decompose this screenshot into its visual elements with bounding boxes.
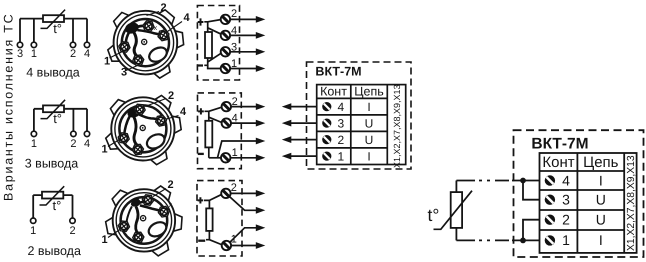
plus mark	[198, 18, 204, 25]
svg-text:2: 2	[562, 212, 570, 228]
svg-text:t°: t°	[53, 111, 62, 126]
output wire 1	[231, 157, 257, 159]
shell tabs	[110, 188, 128, 207]
svg-text:3: 3	[17, 48, 23, 60]
pin label 2 leader	[147, 12, 160, 16]
terminal 1	[31, 218, 36, 223]
svg-text:2 вывода: 2 вывода	[27, 244, 81, 258]
svg-text:4: 4	[84, 138, 90, 150]
wire + node to resistor	[204, 22, 207, 32]
dashed enclosure T1	[307, 62, 412, 169]
arrow 3	[256, 48, 265, 55]
dashed enclosure C	[197, 181, 242, 256]
svg-text:U: U	[365, 116, 374, 130]
header line	[317, 97, 388, 99]
screw contact 2	[322, 135, 331, 144]
svg-text:3: 3	[337, 116, 344, 130]
arrow 2	[256, 103, 265, 110]
svg-text:Конт: Конт	[542, 154, 574, 171]
wire tap row3	[218, 141, 257, 158]
wire blob to pinR	[140, 205, 162, 211]
screw contact 1	[545, 235, 555, 245]
table frame	[540, 153, 637, 253]
keyway oval	[146, 219, 168, 239]
pin B	[132, 232, 144, 243]
keyway oval	[145, 131, 167, 151]
junction dot top	[520, 178, 526, 184]
wire bottom lead	[455, 228, 457, 241]
wire to screw 4	[208, 28, 222, 34]
input wire 1	[291, 155, 317, 157]
svg-text:1: 1	[337, 149, 344, 163]
screw terminal 1	[221, 64, 230, 73]
wire blob to pin4	[137, 30, 162, 35]
pin label 2 leader	[153, 189, 166, 197]
column line 2	[623, 153, 625, 253]
svg-text:1: 1	[30, 225, 36, 237]
wire lead 1	[33, 19, 35, 42]
screw terminal 3	[221, 47, 230, 56]
svg-text:2: 2	[70, 48, 76, 60]
resistor RK2 body	[43, 105, 64, 112]
screw contact 3	[322, 119, 331, 128]
arrow to 1	[282, 153, 292, 160]
svg-text:1: 1	[562, 232, 570, 248]
svg-text:I: I	[367, 149, 370, 163]
wire to screw 4	[209, 117, 222, 122]
arrow to 2	[282, 136, 292, 143]
wire to screw 2	[208, 20, 221, 22]
input wire 2	[291, 139, 317, 141]
input wire 4	[291, 106, 317, 108]
column line 2	[386, 85, 388, 165]
terminal 1	[31, 131, 36, 136]
pin 1	[118, 41, 130, 52]
wiring blob	[131, 198, 141, 207]
wire	[33, 194, 72, 196]
resistor RK1 body	[43, 15, 64, 22]
column line 1	[350, 85, 352, 165]
center pin	[140, 125, 145, 130]
pin 1	[117, 132, 130, 144]
svg-text:1: 1	[232, 147, 238, 159]
svg-text:3: 3	[121, 67, 127, 79]
resistor RB body	[205, 121, 212, 148]
wire blob to pin1	[126, 206, 132, 222]
screw contact 1	[322, 152, 331, 161]
arrow to 4	[282, 103, 292, 110]
wire bottom branch to row2	[523, 220, 540, 241]
wire top branch to row3	[523, 181, 540, 200]
svg-text:1: 1	[31, 48, 37, 60]
pin label 1 leader	[108, 230, 120, 238]
row line 2	[317, 130, 388, 132]
svg-text:Цепь: Цепь	[354, 85, 383, 99]
junction dot bottom	[520, 238, 526, 244]
pin label 1 leader	[110, 52, 123, 59]
pin 1	[118, 221, 130, 232]
dashed enclosure T2	[514, 130, 644, 257]
svg-text:t°: t°	[53, 21, 62, 36]
center pin	[141, 216, 146, 221]
wire top solid left	[456, 180, 475, 182]
svg-text:3 вывода: 3 вывода	[25, 157, 79, 171]
svg-text:4: 4	[562, 172, 570, 188]
svg-text:2: 2	[232, 96, 238, 108]
minus mark	[197, 64, 203, 66]
svg-text:U: U	[596, 192, 606, 208]
table frame	[317, 85, 406, 165]
pin label 2 leader	[147, 99, 167, 107]
svg-text:1: 1	[231, 233, 237, 245]
svg-text:2: 2	[168, 90, 174, 102]
arrow 4	[256, 120, 265, 127]
terminal 2	[71, 131, 76, 136]
svg-text:U: U	[596, 212, 606, 228]
wire blob to pinB	[134, 117, 137, 145]
arrow row2	[256, 207, 265, 214]
row line 3	[540, 229, 625, 231]
plus mark	[198, 197, 204, 203]
screw contact 2	[545, 215, 555, 225]
screw terminal 2	[221, 15, 230, 24]
svg-text:2: 2	[167, 179, 173, 191]
thermistor stroke Rt	[434, 191, 473, 230]
screw terminal 1	[221, 153, 230, 162]
arrow row3	[256, 138, 265, 145]
svg-text:x: x	[169, 202, 173, 209]
screw contact 4	[545, 175, 555, 185]
screw terminal 2	[221, 189, 230, 198]
wire to screw 2	[209, 107, 222, 111]
svg-text:t°: t°	[53, 198, 62, 213]
minus mark	[198, 240, 205, 242]
svg-text:4: 4	[84, 48, 90, 60]
shell rings	[114, 11, 178, 75]
terminal 2	[70, 42, 75, 47]
svg-text:2: 2	[160, 2, 166, 14]
arrow 1	[256, 65, 265, 72]
svg-text:3: 3	[562, 192, 570, 208]
pin 2	[134, 104, 146, 115]
svg-text:4 вывода: 4 вывода	[26, 66, 80, 80]
screw terminal 1	[222, 241, 231, 250]
pin 2	[142, 194, 154, 205]
wire top solid right	[512, 180, 540, 182]
wire - node to resistor	[208, 147, 210, 157]
column line 1	[576, 153, 578, 253]
wire	[20, 18, 87, 20]
row line 2	[540, 209, 625, 211]
wire + node to resistor	[204, 200, 209, 208]
arrow row4	[256, 242, 265, 249]
pin 3	[132, 55, 144, 66]
thermistor stroke RK2	[41, 100, 66, 119]
output wire 2	[230, 18, 256, 20]
wire to screw 1	[208, 65, 221, 68]
svg-text:t°: t°	[428, 205, 440, 225]
keyway oval	[147, 45, 169, 65]
terminal 1	[31, 42, 36, 47]
wire bottom dash-dot	[479, 239, 509, 241]
output wire row3 branch	[230, 228, 257, 242]
pin label 3 leader	[126, 66, 138, 71]
svg-text:U: U	[365, 133, 374, 147]
thermistor stroke RK1	[41, 10, 66, 29]
wire	[34, 108, 87, 110]
resistor RA body	[205, 32, 212, 58]
svg-text:2: 2	[70, 138, 76, 150]
output wire 1	[230, 68, 256, 70]
row line 1	[540, 189, 625, 191]
svg-text:I: I	[599, 232, 603, 248]
wire lead 4	[86, 109, 88, 131]
wire lead 2	[72, 195, 74, 218]
wire blob to pin4	[139, 114, 160, 120]
wire lead 4	[86, 19, 88, 42]
svg-text:Конт: Конт	[320, 85, 347, 99]
dashed enclosure B	[198, 93, 242, 169]
thermistor Rt body	[451, 192, 462, 228]
svg-text:ВКТ-7М: ВКТ-7М	[315, 65, 361, 79]
svg-text:1: 1	[104, 56, 110, 68]
header line	[540, 170, 625, 172]
svg-text:X1,X2,X7,X8,X9,X13: X1,X2,X7,X8,X9,X13	[392, 84, 402, 168]
screw contact 4	[322, 102, 331, 111]
wire bottom solid right	[512, 239, 540, 241]
svg-text:1: 1	[101, 144, 107, 156]
wire blob to pin1	[124, 116, 130, 133]
minus mark	[198, 153, 204, 155]
arrow 1	[256, 154, 265, 161]
terminal 2	[70, 218, 75, 223]
svg-text:2: 2	[231, 8, 237, 20]
row line 3	[317, 147, 388, 149]
wire - node to resistor	[206, 231, 209, 240]
terminal 4	[84, 131, 89, 136]
svg-text:x: x	[154, 25, 158, 32]
wire blob to pinB	[136, 206, 138, 233]
wire + node to resistor	[205, 111, 209, 121]
wiring blob	[124, 21, 141, 36]
arrow to 3	[282, 120, 292, 127]
pin R	[158, 206, 171, 218]
svg-text:Варианты исполнения ТС: Варианты исполнения ТС	[2, 13, 16, 201]
screw contact 3	[545, 195, 555, 205]
wire lead 2	[72, 109, 74, 131]
output wire row2 branch	[230, 197, 257, 211]
svg-text:I: I	[599, 172, 603, 188]
pin label 4 leader	[168, 22, 183, 32]
svg-text:4: 4	[231, 25, 237, 37]
resistor RC body	[206, 208, 212, 231]
arrow 2	[256, 16, 265, 23]
svg-text:X1,X2,X7,X8,X9,X13: X1,X2,X7,X8,X9,X13	[626, 155, 637, 251]
terminal 4	[84, 42, 89, 47]
pin 2	[142, 20, 155, 32]
wire lead 3	[19, 19, 21, 42]
shell tabs	[108, 97, 126, 116]
svg-text:1: 1	[231, 58, 237, 70]
shell rings	[113, 189, 175, 251]
output wire row4	[231, 245, 257, 247]
wire top dash-dot	[479, 180, 509, 182]
shell tabs	[112, 10, 130, 29]
svg-text:Цепь: Цепь	[583, 154, 619, 171]
svg-text:3: 3	[231, 41, 237, 53]
screw terminal 4	[221, 31, 230, 40]
wire to screw 1	[209, 240, 221, 245]
wire lead 1	[33, 109, 35, 131]
plus mark	[198, 108, 204, 114]
output wire 4	[230, 34, 256, 36]
wire lead 1	[32, 195, 34, 218]
wire blob to pin1	[126, 32, 130, 45]
wire to screw 3	[208, 53, 222, 62]
wire bottom solid left	[456, 239, 475, 241]
pin label 1 leader	[108, 140, 120, 147]
arrow 4	[256, 32, 265, 39]
thermistor stroke RK3	[40, 186, 65, 205]
output wire 3	[230, 51, 256, 53]
svg-text:I: I	[367, 100, 370, 114]
arrow row3	[256, 224, 265, 231]
output wire 4	[231, 122, 257, 124]
pin label 4 leader	[167, 116, 179, 120]
wire blob to pin3	[133, 32, 138, 58]
svg-text:4: 4	[337, 100, 344, 114]
svg-text:1: 1	[101, 234, 107, 246]
row line 1	[317, 114, 388, 116]
wiring blob	[127, 107, 142, 119]
pin 4	[155, 115, 168, 127]
pin B	[132, 144, 144, 155]
pin 4	[157, 29, 170, 41]
svg-text:4: 4	[180, 106, 187, 118]
center pin	[142, 39, 147, 44]
resistor RK3 body	[42, 192, 63, 199]
svg-text:2: 2	[231, 182, 237, 194]
svg-text:2: 2	[337, 133, 344, 147]
input wire 3	[291, 122, 317, 124]
svg-text:4: 4	[232, 113, 238, 125]
wire to screw 1	[209, 157, 221, 159]
shell rings	[111, 97, 174, 160]
wire top lead	[455, 181, 457, 193]
dashed enclosure A	[197, 6, 239, 81]
svg-text:4: 4	[183, 12, 190, 24]
screw terminal 4	[222, 118, 231, 127]
svg-text:ВКТ-7М: ВКТ-7М	[531, 136, 588, 153]
wire blob to pin2	[138, 202, 146, 204]
svg-text:1: 1	[31, 138, 37, 150]
wire to screw 2	[209, 195, 221, 201]
screw terminal 2	[222, 102, 231, 111]
wire - node to resistor	[204, 58, 207, 65]
terminal 3	[17, 42, 22, 47]
arrow row1	[256, 190, 265, 197]
wire blob to pin2	[136, 26, 147, 27]
svg-text:2: 2	[69, 225, 75, 237]
output wire row1	[231, 192, 257, 194]
output wire 2	[231, 106, 257, 108]
wire lead 2	[72, 19, 74, 42]
